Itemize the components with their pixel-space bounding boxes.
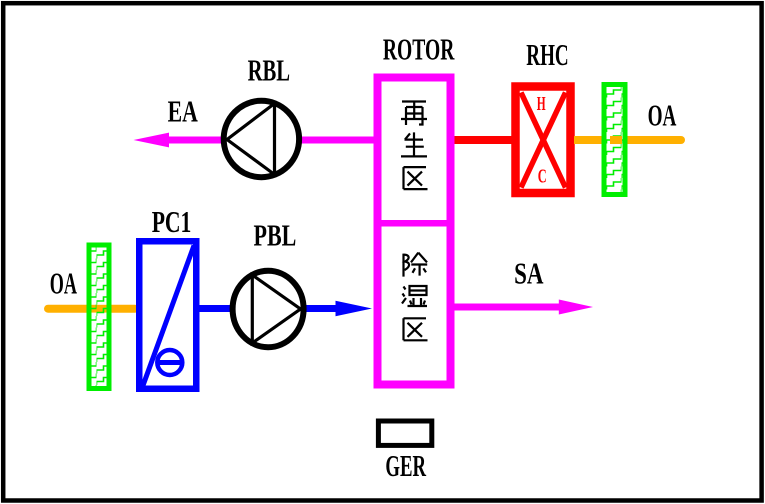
- cooler PC1: [139, 241, 196, 389]
- svg-text:H: H: [537, 93, 546, 115]
- svg-text:ROTOR: ROTOR: [383, 32, 455, 67]
- svg-text:C: C: [538, 165, 547, 187]
- wire regeneration (red line rotor to RHC): [455, 136, 512, 144]
- svg-text:EA: EA: [168, 93, 199, 128]
- zone label 再生区 (regeneration zone): [401, 102, 428, 190]
- wire OA right (orange outdoor-air line): [579, 136, 681, 144]
- fan PBL: [233, 271, 304, 347]
- svg-text:SA: SA: [514, 256, 544, 291]
- generator GER box: [378, 421, 431, 445]
- svg-text:PC1: PC1: [152, 204, 192, 239]
- EA arrowhead: [134, 133, 170, 148]
- char 湿: [402, 286, 427, 306]
- svg-text:GER: GER: [385, 448, 426, 483]
- wire blue (supply line): [200, 305, 338, 312]
- char 除: [404, 253, 428, 277]
- svg-text:OA: OA: [648, 97, 677, 132]
- wire EA (magenta exhaust line): [167, 137, 374, 144]
- rotor divider: [378, 220, 451, 227]
- char 区: [404, 318, 428, 340]
- wire OA left (orange outdoor-air line): [48, 305, 135, 313]
- blue arrowhead into rotor: [336, 301, 373, 317]
- char 区: [404, 167, 428, 189]
- wire SA (magenta supply line): [455, 304, 562, 311]
- zone label 除湿区 (dehumidification zone): [402, 253, 428, 341]
- heater RHC: [516, 87, 571, 194]
- svg-text:RBL: RBL: [248, 53, 291, 88]
- filter right: [604, 85, 625, 195]
- filter left: [89, 245, 109, 389]
- char 再: [401, 102, 427, 126]
- svg-text:PBL: PBL: [254, 218, 297, 253]
- svg-text:OA: OA: [50, 265, 78, 300]
- rotor box (ROTOR): [378, 78, 451, 385]
- SA arrowhead: [559, 300, 593, 315]
- svg-text:RHC: RHC: [526, 37, 568, 72]
- fan RBL: [224, 101, 299, 177]
- char 生: [401, 132, 427, 156]
